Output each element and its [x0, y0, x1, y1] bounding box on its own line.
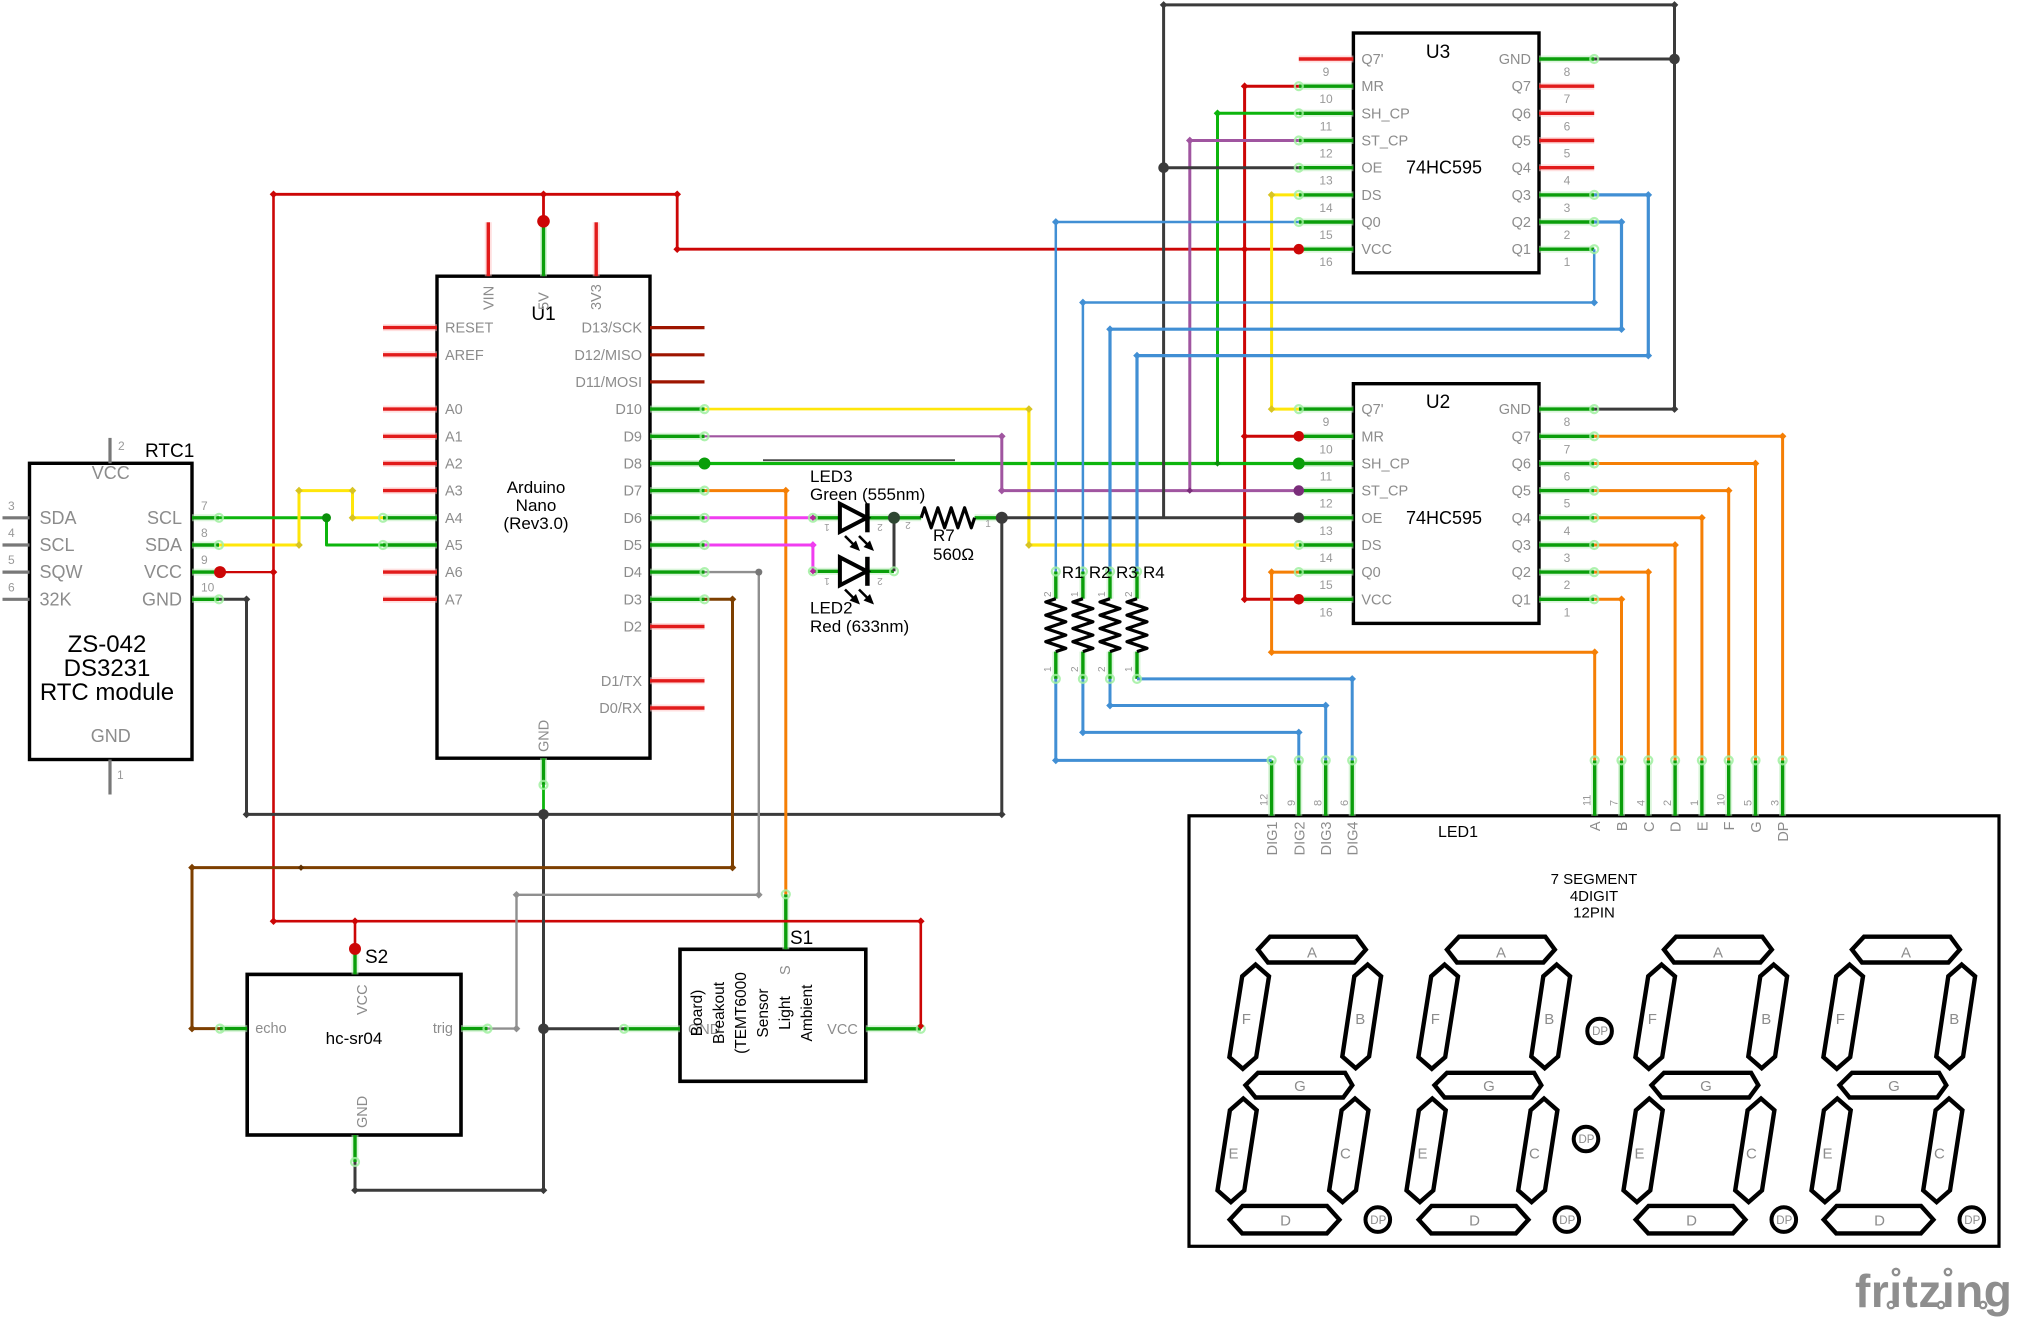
svg-text:4: 4: [8, 526, 15, 540]
svg-text:GND: GND: [91, 726, 131, 746]
svg-text:13: 13: [1319, 174, 1333, 188]
svg-text:10: 10: [1319, 92, 1333, 106]
svg-text:D3: D3: [623, 592, 642, 608]
svg-text:D: D: [1669, 822, 1685, 832]
svg-text:Q5: Q5: [1512, 484, 1531, 500]
svg-text:6: 6: [1339, 800, 1351, 806]
svg-text:MR: MR: [1361, 429, 1384, 445]
svg-text:Nano: Nano: [516, 496, 557, 515]
svg-text:GND: GND: [537, 720, 553, 752]
svg-text:A2: A2: [445, 457, 463, 473]
svg-text:2: 2: [1070, 666, 1081, 672]
svg-text:D: D: [1874, 1213, 1885, 1230]
svg-text:(Rev3.0): (Rev3.0): [503, 514, 568, 533]
svg-text:8: 8: [1564, 65, 1571, 79]
svg-text:Q2: Q2: [1512, 215, 1531, 231]
svg-text:G: G: [1749, 822, 1765, 833]
svg-text:DP: DP: [1776, 822, 1792, 842]
svg-text:E: E: [1228, 1146, 1238, 1163]
svg-text:DS3231: DS3231: [64, 655, 151, 682]
svg-text:1: 1: [824, 521, 830, 532]
svg-text:9: 9: [1323, 415, 1330, 429]
svg-text:D10: D10: [615, 402, 642, 418]
svg-text:Q7: Q7: [1512, 429, 1531, 445]
svg-text:VCC: VCC: [1361, 592, 1392, 608]
svg-text:10: 10: [201, 580, 215, 594]
svg-text:8: 8: [1564, 415, 1571, 429]
svg-text:A: A: [1901, 945, 1911, 962]
svg-text:1: 1: [1124, 666, 1135, 672]
svg-text:Q0: Q0: [1361, 565, 1380, 581]
svg-text:VCC: VCC: [92, 463, 130, 483]
svg-text:2: 2: [1097, 666, 1108, 672]
svg-text:C: C: [1934, 1146, 1945, 1163]
svg-text:32K: 32K: [40, 589, 72, 609]
svg-text:9: 9: [1323, 65, 1330, 79]
svg-text:11: 11: [1320, 119, 1333, 133]
svg-text:U3: U3: [1426, 42, 1450, 63]
svg-text:DP: DP: [1776, 1215, 1792, 1227]
svg-text:A: A: [1713, 945, 1723, 962]
svg-text:Red (633nm): Red (633nm): [810, 617, 909, 636]
svg-text:GND: GND: [142, 589, 182, 609]
svg-text:11: 11: [1582, 795, 1594, 806]
svg-text:SCL: SCL: [147, 508, 182, 528]
svg-text:1: 1: [1564, 605, 1571, 619]
svg-text:9: 9: [201, 553, 208, 567]
svg-text:Q5: Q5: [1512, 134, 1531, 150]
svg-text:Q3: Q3: [1512, 188, 1531, 204]
svg-text:Q6: Q6: [1512, 106, 1531, 122]
svg-text:ZS-042: ZS-042: [68, 631, 147, 658]
svg-text:LED1: LED1: [1438, 824, 1478, 841]
svg-text:G: G: [1888, 1078, 1900, 1095]
svg-text:2: 2: [1662, 800, 1674, 806]
svg-text:G: G: [1700, 1078, 1712, 1095]
svg-text:B: B: [1544, 1011, 1554, 1028]
svg-text:16: 16: [1319, 255, 1333, 269]
svg-text:10: 10: [1319, 442, 1333, 456]
svg-text:DIG3: DIG3: [1319, 822, 1335, 856]
svg-text:SCL: SCL: [40, 535, 75, 555]
svg-text:D13/SCK: D13/SCK: [582, 321, 643, 337]
svg-text:VCC: VCC: [144, 562, 182, 582]
svg-text:Q7': Q7': [1361, 402, 1383, 418]
svg-text:Q4: Q4: [1512, 511, 1531, 527]
svg-text:DIG1: DIG1: [1265, 822, 1281, 856]
svg-text:AREF: AREF: [445, 348, 484, 364]
svg-text:1: 1: [1689, 800, 1701, 806]
svg-text:VCC: VCC: [827, 1022, 858, 1038]
svg-text:4: 4: [1564, 524, 1571, 538]
svg-text:Light: Light: [777, 996, 794, 1030]
svg-text:D4: D4: [623, 565, 642, 581]
svg-text:S2: S2: [365, 947, 388, 968]
svg-text:DP: DP: [1592, 1026, 1608, 1038]
svg-text:1: 1: [1097, 591, 1108, 597]
svg-text:5: 5: [1743, 800, 1755, 806]
svg-text:74HC595: 74HC595: [1406, 508, 1482, 528]
svg-text:6: 6: [8, 580, 15, 594]
svg-text:MR: MR: [1361, 79, 1384, 95]
svg-text:8: 8: [201, 526, 208, 540]
svg-text:3: 3: [1770, 800, 1782, 806]
svg-text:DS: DS: [1361, 188, 1381, 204]
svg-text:SQW: SQW: [40, 562, 83, 582]
svg-text:6: 6: [1564, 470, 1571, 484]
svg-text:U2: U2: [1426, 392, 1450, 413]
svg-text:12: 12: [1259, 794, 1271, 806]
svg-text:1: 1: [117, 768, 124, 782]
svg-text:5: 5: [1564, 497, 1571, 511]
svg-text:12: 12: [1319, 147, 1333, 161]
svg-text:RTC module: RTC module: [40, 679, 174, 706]
svg-text:SDA: SDA: [145, 535, 182, 555]
svg-text:7: 7: [1564, 92, 1571, 106]
svg-text:B: B: [1615, 822, 1631, 832]
svg-text:G: G: [1483, 1078, 1495, 1095]
svg-text:Board): Board): [689, 990, 706, 1037]
svg-text:Q1: Q1: [1512, 242, 1531, 258]
svg-text:D6: D6: [623, 511, 642, 527]
svg-text:RESET: RESET: [445, 321, 493, 337]
svg-text:F: F: [1648, 1011, 1657, 1028]
svg-text:1: 1: [1070, 591, 1081, 597]
svg-text:VCC: VCC: [355, 984, 371, 1015]
svg-text:SDA: SDA: [40, 508, 77, 528]
svg-text:B: B: [1355, 1011, 1365, 1028]
svg-text:OE: OE: [1361, 161, 1382, 177]
svg-text:SH_CP: SH_CP: [1361, 106, 1409, 122]
svg-text:ST_CP: ST_CP: [1361, 484, 1408, 500]
svg-text:2: 2: [1043, 591, 1054, 597]
svg-text:DP: DP: [1579, 1134, 1595, 1146]
svg-text:hc-sr04: hc-sr04: [326, 1029, 383, 1048]
svg-text:D2: D2: [623, 620, 642, 636]
svg-text:F: F: [1836, 1011, 1845, 1028]
svg-text:C: C: [1529, 1146, 1540, 1163]
svg-text:2: 2: [1564, 578, 1571, 592]
svg-text:B: B: [1761, 1011, 1771, 1028]
svg-text:D: D: [1686, 1213, 1697, 1230]
svg-text:D9: D9: [623, 429, 642, 445]
svg-text:E: E: [1822, 1146, 1832, 1163]
svg-text:R3: R3: [1116, 563, 1138, 582]
svg-text:D12/MISO: D12/MISO: [574, 348, 642, 364]
svg-text:R4: R4: [1143, 563, 1165, 582]
svg-text:2: 2: [877, 575, 883, 586]
svg-text:4DIGIT: 4DIGIT: [1570, 888, 1618, 905]
svg-text:DIG2: DIG2: [1292, 822, 1308, 856]
svg-text:D7: D7: [623, 484, 642, 500]
svg-text:GND: GND: [355, 1096, 371, 1128]
svg-text:DP: DP: [1964, 1215, 1980, 1227]
svg-text:3: 3: [1564, 201, 1571, 215]
svg-text:F: F: [1722, 821, 1738, 830]
svg-text:S1: S1: [790, 928, 813, 949]
svg-text:8: 8: [1313, 800, 1325, 806]
svg-text:2: 2: [905, 519, 911, 530]
svg-text:D8: D8: [623, 457, 642, 473]
svg-text:DIG4: DIG4: [1346, 822, 1362, 856]
svg-text:6: 6: [1564, 119, 1571, 133]
svg-text:560Ω: 560Ω: [933, 545, 974, 564]
svg-text:4: 4: [1564, 174, 1571, 188]
svg-text:12PIN: 12PIN: [1573, 905, 1615, 922]
svg-text:B: B: [1949, 1011, 1959, 1028]
svg-text:A4: A4: [445, 511, 463, 527]
svg-text:12: 12: [1319, 497, 1333, 511]
svg-text:A6: A6: [445, 565, 463, 581]
svg-text:D5: D5: [623, 538, 642, 554]
svg-text:C: C: [1746, 1146, 1757, 1163]
svg-text:Q0: Q0: [1361, 215, 1380, 231]
svg-text:3: 3: [8, 499, 15, 513]
svg-text:GND: GND: [1499, 52, 1531, 68]
svg-text:Q7': Q7': [1361, 52, 1383, 68]
svg-text:Q1: Q1: [1512, 592, 1531, 608]
svg-text:9: 9: [1286, 800, 1298, 806]
svg-text:D: D: [1280, 1213, 1291, 1230]
svg-text:E: E: [1417, 1146, 1427, 1163]
svg-text:E: E: [1634, 1146, 1644, 1163]
svg-text:DP: DP: [1559, 1215, 1575, 1227]
svg-text:Q4: Q4: [1512, 161, 1531, 177]
svg-text:Breakout: Breakout: [711, 981, 728, 1044]
svg-text:LED2: LED2: [810, 599, 853, 618]
svg-text:D0/RX: D0/RX: [599, 701, 642, 717]
svg-text:DS: DS: [1361, 538, 1381, 554]
svg-text:Q6: Q6: [1512, 457, 1531, 473]
svg-text:D1/TX: D1/TX: [601, 674, 642, 690]
svg-text:2: 2: [1564, 228, 1571, 242]
svg-text:Ambient: Ambient: [799, 984, 816, 1042]
svg-text:4: 4: [1635, 800, 1647, 806]
svg-text:(TEMT6000: (TEMT6000: [733, 972, 750, 1054]
svg-text:74HC595: 74HC595: [1406, 158, 1482, 178]
svg-text:VIN: VIN: [481, 286, 497, 310]
svg-text:echo: echo: [255, 1021, 286, 1037]
svg-text:A3: A3: [445, 484, 463, 500]
svg-text:Q2: Q2: [1512, 565, 1531, 581]
svg-text:5: 5: [1564, 147, 1571, 161]
svg-text:GND: GND: [1499, 402, 1531, 418]
svg-text:A1: A1: [445, 429, 463, 445]
svg-text:LED3: LED3: [810, 467, 853, 486]
svg-text:13: 13: [1319, 524, 1333, 538]
svg-text:3: 3: [1564, 551, 1571, 565]
svg-text:R2: R2: [1089, 563, 1111, 582]
svg-text:Q7: Q7: [1512, 79, 1531, 95]
svg-text:DP: DP: [1370, 1215, 1386, 1227]
svg-text:S: S: [778, 965, 794, 975]
svg-text:A: A: [1307, 945, 1317, 962]
svg-text:frıtzıng: frıtzıng: [1855, 1265, 2012, 1317]
svg-text:D: D: [1469, 1213, 1480, 1230]
svg-text:5: 5: [8, 553, 15, 567]
svg-text:1: 1: [824, 575, 830, 586]
svg-text:A7: A7: [445, 592, 463, 608]
svg-text:Q3: Q3: [1512, 538, 1531, 554]
svg-text:2: 2: [118, 439, 125, 453]
svg-text:G: G: [1294, 1078, 1306, 1095]
svg-text:R7: R7: [933, 526, 955, 545]
svg-text:14: 14: [1319, 551, 1333, 565]
svg-text:trig: trig: [433, 1021, 453, 1037]
svg-text:SH_CP: SH_CP: [1361, 457, 1409, 473]
svg-text:11: 11: [1320, 470, 1333, 484]
svg-text:7: 7: [1564, 442, 1571, 456]
svg-text:14: 14: [1319, 201, 1333, 215]
svg-text:VCC: VCC: [1361, 242, 1392, 258]
svg-text:C: C: [1642, 822, 1658, 832]
svg-text:A: A: [1496, 945, 1506, 962]
svg-text:7: 7: [1609, 800, 1621, 806]
svg-text:A5: A5: [445, 538, 463, 554]
svg-text:7: 7: [201, 499, 208, 513]
svg-text:Green (555nm): Green (555nm): [810, 485, 925, 504]
svg-text:5V: 5V: [537, 292, 553, 310]
svg-text:10: 10: [1716, 794, 1728, 806]
svg-text:ST_CP: ST_CP: [1361, 134, 1408, 150]
svg-text:1: 1: [985, 519, 991, 530]
svg-text:F: F: [1431, 1011, 1440, 1028]
svg-text:7 SEGMENT: 7 SEGMENT: [1551, 871, 1638, 888]
svg-text:RTC1: RTC1: [145, 441, 194, 462]
svg-text:2: 2: [877, 521, 883, 532]
svg-text:E: E: [1695, 821, 1711, 831]
svg-text:R1: R1: [1062, 563, 1084, 582]
svg-text:OE: OE: [1361, 511, 1382, 527]
svg-text:Sensor: Sensor: [755, 988, 772, 1037]
svg-text:16: 16: [1319, 605, 1333, 619]
svg-text:1: 1: [1043, 666, 1054, 672]
svg-text:1: 1: [1564, 255, 1571, 269]
svg-text:15: 15: [1319, 578, 1333, 592]
svg-text:Arduino: Arduino: [507, 478, 566, 497]
svg-text:D11/MOSI: D11/MOSI: [575, 375, 642, 391]
svg-text:A0: A0: [445, 402, 463, 418]
svg-text:3V3: 3V3: [589, 284, 605, 310]
svg-text:F: F: [1242, 1011, 1251, 1028]
svg-text:A: A: [1588, 821, 1604, 831]
svg-text:2: 2: [1124, 591, 1135, 597]
svg-text:15: 15: [1319, 228, 1333, 242]
svg-text:C: C: [1340, 1146, 1351, 1163]
